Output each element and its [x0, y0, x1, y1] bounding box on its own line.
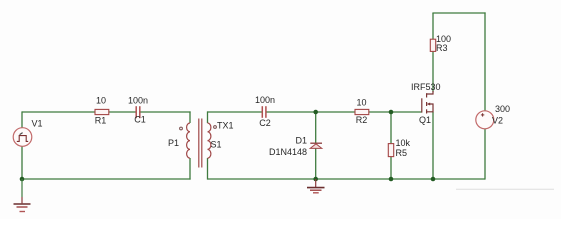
svg-text:R3: R3: [436, 43, 448, 53]
wire node B to R5 top: [390, 112, 392, 144]
wire P1 bottom stub: [189, 158, 191, 180]
node junction dot D1 / ground rail: [313, 177, 318, 182]
wire top-left rail V1 to C1: [22, 111, 136, 113]
svg-text:10: 10: [356, 98, 366, 108]
wire R2 to Q1 gate: [369, 111, 422, 113]
resistor R1: [95, 109, 109, 114]
wire R5 bottom to rail: [390, 157, 392, 179]
wire C2 to R2: [266, 111, 355, 113]
ground GND1 (left): [14, 179, 31, 212]
wire S1 to C2: [207, 111, 262, 113]
node junction dot V1 bottom / ground: [20, 177, 25, 182]
svg-text:R5: R5: [396, 148, 408, 158]
svg-text:D1: D1: [296, 136, 308, 146]
capacitor C2: [262, 106, 266, 118]
svg-text:D1N4148: D1N4148: [269, 147, 307, 157]
svg-text:Q1: Q1: [419, 115, 431, 125]
wire V1 top stub: [21, 111, 23, 127]
transformer S1 phase dot: [214, 126, 217, 129]
node junction dot Q1 source rail: [431, 177, 436, 182]
svg-text:S1: S1: [211, 140, 222, 150]
wire S1 top stub: [207, 111, 209, 123]
diode D1: [310, 143, 322, 148]
resistor R3: [430, 39, 435, 51]
wire C1 to P1 top corner: [140, 111, 191, 113]
svg-text:P1: P1: [168, 138, 179, 148]
svg-text:R2: R2: [356, 115, 368, 125]
ground GND2 (middle, secondary side): [307, 179, 325, 193]
wire P1 top stub: [189, 111, 191, 123]
svg-text:R1: R1: [95, 116, 107, 126]
svg-text:TX1: TX1: [217, 121, 234, 131]
wire bottom-right rail: [208, 178, 486, 180]
wire V2 bottom to rail: [484, 129, 486, 180]
svg-text:C2: C2: [259, 118, 271, 128]
wire Q1 drain up to R3: [432, 51, 434, 92]
svg-text:V2: V2: [492, 116, 503, 126]
transformer TX1 secondary winding S1: [208, 123, 211, 158]
wire D1 bottom to ground rail: [315, 148, 317, 179]
transformer TX1 core: [199, 119, 202, 168]
capacitor C1: [136, 106, 140, 118]
svg-text:C1: C1: [134, 115, 146, 125]
voltage source V1 (pulse): [13, 128, 32, 147]
svg-text:V1: V1: [32, 119, 43, 129]
voltage source V2 (300V): [476, 111, 494, 129]
resistor R2: [355, 109, 369, 114]
wire Q1 source down: [432, 112, 434, 180]
transformer TX1 primary winding P1: [187, 123, 190, 158]
svg-text:10: 10: [96, 96, 106, 106]
svg-text:300: 300: [495, 104, 510, 114]
svg-text:10k: 10k: [396, 138, 411, 148]
wire bottom-left rail: [22, 178, 191, 180]
wire R3 top: [432, 13, 434, 39]
transformer P1 phase dot: [180, 127, 183, 130]
node junction dot R2/R5 top: [389, 110, 394, 115]
wire right vertical to V2 top: [484, 12, 486, 111]
wire node A to D1 anode-top: [315, 112, 317, 143]
wire S1 bottom stub: [207, 158, 209, 180]
node junction dot R5 bottom: [389, 177, 394, 182]
svg-text:100n: 100n: [255, 95, 275, 105]
wire top-right rail: [432, 12, 485, 14]
node junction dot C2/D1 top: [313, 110, 318, 115]
transistor Q1 MOSFET IRF530: [422, 91, 433, 114]
transistor Q1 body arrow: [427, 103, 431, 106]
faint divider line bottom-right: [456, 188, 554, 190]
resistor R5: [388, 144, 393, 157]
wire V1 bottom stub: [21, 146, 23, 179]
svg-text:IRF530: IRF530: [411, 82, 441, 92]
svg-text:100n: 100n: [128, 96, 148, 106]
